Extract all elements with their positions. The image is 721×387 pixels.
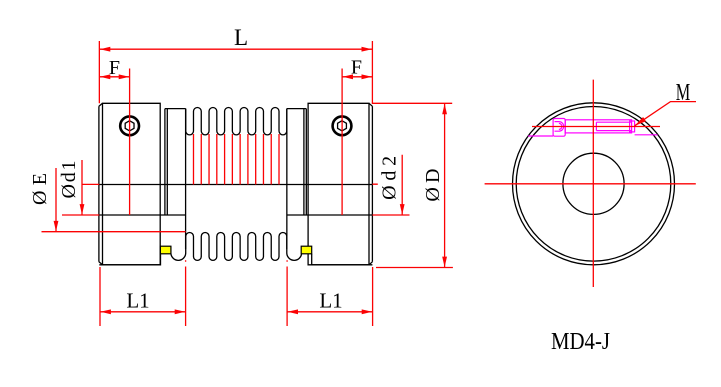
- svg-text:Ød1: Ød1: [58, 161, 80, 199]
- svg-text:F: F: [351, 57, 362, 79]
- svg-text:F: F: [109, 57, 120, 79]
- svg-text:Ød2: Ød2: [379, 156, 401, 200]
- svg-text:MD4-J: MD4-J: [551, 329, 610, 355]
- svg-text:L1: L1: [126, 289, 149, 313]
- svg-text:L1: L1: [319, 289, 342, 313]
- svg-text:L: L: [234, 25, 248, 50]
- svg-text:M: M: [676, 80, 691, 106]
